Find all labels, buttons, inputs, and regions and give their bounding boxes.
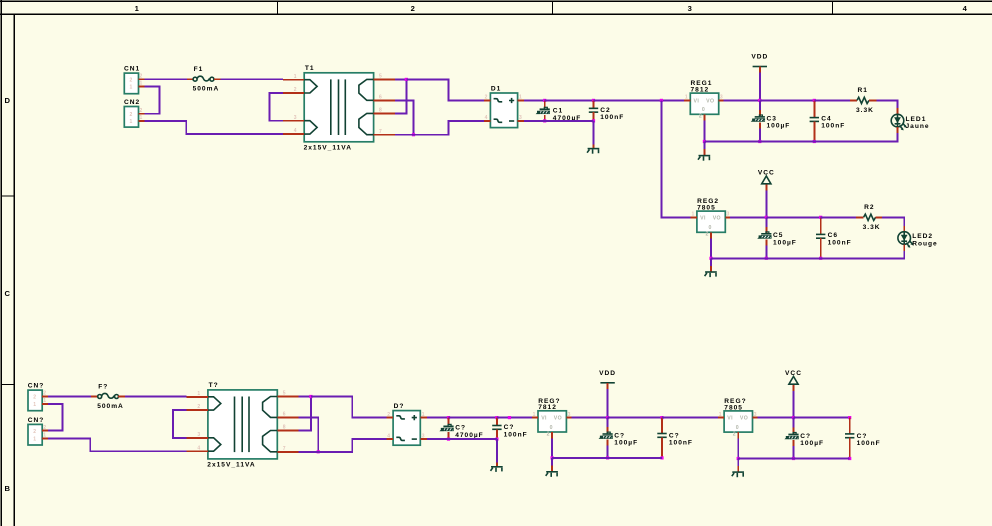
svg-text:VO: VO bbox=[740, 416, 748, 422]
svg-text:3: 3 bbox=[727, 212, 730, 218]
capacitor C2 100nF bbox=[593, 100, 595, 108]
capacitor C? 100nF bbox=[496, 418, 498, 426]
svg-text:8: 8 bbox=[379, 108, 382, 114]
wire D? - to C? bottom bbox=[427, 438, 449, 440]
wire ground rail C6 to C5 bbox=[766, 257, 820, 259]
svg-text:Jaune: Jaune bbox=[906, 123, 930, 130]
svg-text:2: 2 bbox=[43, 391, 46, 397]
ground at C2 bbox=[588, 148, 600, 150]
wire REG2 VO to VCC node bbox=[730, 216, 766, 218]
svg-text:1: 1 bbox=[135, 4, 140, 13]
node REG?7805 GND rail bbox=[737, 457, 740, 460]
svg-text:1: 1 bbox=[140, 115, 143, 121]
wire CN1-2 to F1 bbox=[145, 78, 188, 80]
svg-text:2: 2 bbox=[140, 108, 143, 114]
svg-text:5: 5 bbox=[379, 74, 382, 80]
capacitor C? 100nF at 7805 bbox=[849, 418, 851, 434]
wire F? to T? pin1 bbox=[125, 396, 187, 398]
svg-text:C?: C? bbox=[504, 424, 515, 431]
svg-text:1: 1 bbox=[685, 95, 688, 101]
svg-text:100nF: 100nF bbox=[828, 239, 852, 246]
wire C1 top to C2 top bbox=[545, 99, 594, 101]
wire T1 pin7 to node bbox=[395, 134, 414, 136]
ground at REG1 bbox=[699, 155, 711, 157]
svg-text:3: 3 bbox=[568, 412, 571, 418]
svg-text:VDD: VDD bbox=[751, 54, 768, 61]
svg-text:VI: VI bbox=[541, 416, 547, 422]
svg-text:6: 6 bbox=[379, 94, 382, 100]
wire VDD node to C?100n at 7812 bbox=[608, 417, 662, 419]
svg-text:3: 3 bbox=[720, 95, 723, 101]
wire C2 bottom to ground bbox=[593, 121, 595, 144]
ground at C?100n bbox=[491, 466, 503, 468]
svg-text:100µF: 100µF bbox=[773, 239, 797, 246]
wire REG?7805 VO to VCC node bbox=[757, 417, 793, 419]
svg-text:4: 4 bbox=[387, 433, 390, 439]
wire sec+ to D? ac1 bbox=[311, 397, 387, 418]
svg-text:500mA: 500mA bbox=[193, 86, 220, 93]
capacitor C3 100uF bbox=[759, 100, 761, 116]
node C?100n bottom at 7805 bbox=[848, 457, 851, 460]
node C1 bottom bbox=[543, 119, 546, 122]
svg-text:C?: C? bbox=[800, 433, 811, 440]
svg-text:C?: C? bbox=[614, 432, 625, 439]
svg-text:B: B bbox=[5, 484, 11, 493]
wire VCC node to C?100n at 7805 bbox=[794, 417, 850, 419]
node C2 top bbox=[592, 99, 595, 102]
wire REG1 gnd to ground bbox=[703, 142, 705, 150]
svg-text:0: 0 bbox=[709, 225, 712, 231]
svg-text:1: 1 bbox=[130, 85, 133, 91]
resistor R2 3.3K bbox=[856, 216, 864, 218]
ground at REG?7812 bbox=[546, 471, 558, 473]
wire D1 - to C1 bottom bbox=[524, 120, 545, 122]
wire C?4700 bottom to C?100n bottom bbox=[449, 438, 497, 440]
wire C?100n bottom to ground bbox=[496, 439, 498, 462]
wire sec- to D1 ac2 bbox=[414, 121, 484, 135]
svg-text:1: 1 bbox=[43, 433, 46, 439]
node VCC rail bbox=[765, 216, 768, 219]
wire CN2-1 to T1 pin4 bbox=[145, 121, 284, 134]
capacitor C? 100uF at 7812 bbox=[607, 418, 609, 428]
svg-text:CN2: CN2 bbox=[124, 99, 140, 106]
wire C6 to R2 bbox=[821, 216, 856, 218]
svg-text:2: 2 bbox=[547, 431, 550, 437]
svg-text:R1: R1 bbox=[858, 87, 868, 94]
node C4 bottom bbox=[813, 140, 816, 143]
svg-text:3.3K: 3.3K bbox=[856, 107, 874, 114]
wire VCC node to C6 bbox=[766, 216, 820, 218]
node VCC rail bottom bbox=[792, 416, 795, 419]
wire REG1 VO to VDD node bbox=[724, 99, 760, 101]
svg-text:VO: VO bbox=[554, 416, 562, 422]
node C?100n top bbox=[495, 416, 498, 419]
svg-text:100µF: 100µF bbox=[800, 440, 824, 447]
wire CN?1-2 to F? bbox=[48, 396, 91, 398]
svg-text:100nF: 100nF bbox=[600, 114, 624, 121]
capacitor C? 4700uF bbox=[448, 418, 450, 426]
svg-text:2: 2 bbox=[33, 429, 36, 435]
svg-text:2: 2 bbox=[130, 77, 133, 83]
svg-text:LED2: LED2 bbox=[912, 233, 933, 240]
svg-text:D1: D1 bbox=[491, 86, 501, 93]
wire gnd rail 7805 section bbox=[738, 458, 850, 460]
node C4 top bbox=[813, 99, 816, 102]
node REG?7812 GND rail bbox=[551, 456, 554, 459]
node REG1 GND rail bbox=[703, 140, 706, 143]
wire VDD down to rail bbox=[607, 389, 609, 418]
svg-text:7: 7 bbox=[283, 446, 286, 452]
wire T1 pin8 up to pin5 net bbox=[395, 79, 407, 113]
ground at REG2 bbox=[705, 271, 717, 273]
node C1 top bbox=[543, 99, 546, 102]
wire C1 bottom to C2 bottom bbox=[545, 120, 594, 122]
wire C2 top to REG1 VI bbox=[594, 99, 685, 101]
svg-text:1: 1 bbox=[33, 402, 36, 408]
svg-text:0: 0 bbox=[702, 107, 705, 113]
svg-text:R2: R2 bbox=[864, 204, 874, 211]
svg-text:3: 3 bbox=[519, 115, 522, 121]
svg-text:2x15V_11VA: 2x15V_11VA bbox=[207, 462, 255, 469]
wire LED2 to ground rail bbox=[821, 251, 905, 258]
svg-text:VDD: VDD bbox=[599, 370, 616, 377]
svg-text:C?: C? bbox=[455, 425, 466, 432]
svg-text:7: 7 bbox=[379, 129, 382, 135]
node C5 bottom bbox=[765, 257, 768, 260]
svg-text:C?: C? bbox=[669, 432, 680, 439]
svg-text:100µF: 100µF bbox=[767, 123, 791, 130]
node C?100n bottom at 7812 bbox=[660, 456, 663, 459]
node C?100u bottom at 7812 bbox=[606, 456, 609, 459]
svg-text:C1: C1 bbox=[553, 108, 563, 115]
svg-text:C3: C3 bbox=[767, 115, 777, 122]
wire REG?7812 gnd to ground bbox=[551, 458, 553, 466]
wire F1 to T1 pin1 bbox=[221, 78, 283, 80]
svg-text:D: D bbox=[5, 96, 11, 105]
svg-text:CN?: CN? bbox=[28, 383, 45, 390]
svg-text:4700µF: 4700µF bbox=[455, 432, 484, 439]
svg-text:5: 5 bbox=[283, 391, 286, 397]
capacitor C? 100uF at 7805 bbox=[793, 418, 795, 428]
svg-text:2: 2 bbox=[706, 232, 709, 238]
node REG2 GND rail bbox=[709, 257, 712, 260]
wire LED1 to ground rail bbox=[814, 133, 897, 142]
wire node down to REG2 VI bbox=[661, 100, 691, 217]
svg-text:2: 2 bbox=[294, 87, 297, 93]
svg-text:1: 1 bbox=[719, 412, 722, 418]
svg-text:VI: VI bbox=[700, 215, 706, 221]
svg-text:C6: C6 bbox=[828, 232, 838, 239]
svg-text:1: 1 bbox=[692, 212, 695, 218]
fuse F1 500mA bbox=[187, 78, 193, 80]
capacitor C6 100nF bbox=[820, 217, 822, 234]
svg-text:VI: VI bbox=[727, 416, 733, 422]
LED LED2 Rouge bbox=[903, 226, 905, 232]
svg-text:4: 4 bbox=[197, 445, 200, 451]
wire REG2 gnd to ground bbox=[710, 258, 712, 266]
svg-text:3: 3 bbox=[688, 4, 693, 13]
svg-text:LED1: LED1 bbox=[906, 116, 927, 123]
wire T? pin8 up to pin5 net bbox=[299, 397, 311, 431]
svg-text:1: 1 bbox=[197, 391, 200, 397]
svg-text:C2: C2 bbox=[600, 107, 610, 114]
wire REG?7805 gnd to ground bbox=[737, 459, 739, 467]
node T? pins 6-7 bbox=[317, 450, 320, 453]
wire T? pin7 to node bbox=[299, 451, 319, 453]
svg-text:CN?: CN? bbox=[28, 417, 45, 424]
wire ground rail C3 to REG1 bbox=[704, 141, 759, 143]
wire R2 to LED2 bbox=[882, 217, 904, 226]
node T1 pins 5-8 bbox=[405, 78, 408, 81]
wire CN1-1 to CN2-2 bbox=[145, 87, 160, 114]
capacitor C? 100nF at 7812 bbox=[661, 418, 663, 434]
wire T1 pin5 to node bbox=[395, 78, 407, 80]
wire ground rail C5 to REG2 bbox=[711, 257, 766, 259]
svg-text:500mA: 500mA bbox=[97, 403, 124, 410]
svg-text:1: 1 bbox=[294, 74, 297, 80]
node C3 bottom bbox=[758, 140, 761, 143]
svg-text:0: 0 bbox=[736, 425, 739, 431]
wire T1 pin6 down to pin7 net bbox=[395, 100, 414, 134]
node C6 bottom bbox=[819, 257, 822, 260]
ground at REG?7805 bbox=[732, 471, 744, 473]
svg-text:2: 2 bbox=[733, 432, 736, 438]
wire REG?7812 GND down bbox=[551, 438, 553, 458]
svg-text:1: 1 bbox=[422, 412, 425, 418]
svg-text:C: C bbox=[5, 289, 11, 298]
node C?4700 top bbox=[447, 416, 450, 419]
node C?4700 bottom bbox=[447, 438, 450, 441]
wire REG2 GND down bbox=[710, 239, 712, 259]
svg-text:2: 2 bbox=[33, 395, 36, 401]
svg-text:2x15V_11VA: 2x15V_11VA bbox=[304, 144, 352, 151]
svg-text:4: 4 bbox=[963, 4, 968, 13]
node C?100n top at 7805 bbox=[848, 416, 851, 419]
svg-text:1: 1 bbox=[33, 437, 36, 443]
node C?100n bottom bbox=[495, 438, 498, 441]
svg-text:T1: T1 bbox=[305, 65, 315, 72]
wire REG1 GND down bbox=[703, 121, 705, 142]
svg-text:2: 2 bbox=[485, 95, 488, 101]
svg-text:6: 6 bbox=[283, 412, 286, 418]
node C?100u bottom at 7805 bbox=[792, 457, 795, 460]
wire ground rail C4 to C3 bbox=[760, 141, 815, 143]
svg-text:3.3K: 3.3K bbox=[863, 224, 881, 231]
svg-text:100µF: 100µF bbox=[614, 440, 638, 447]
node C?100n top at 7812 bbox=[660, 416, 663, 419]
wire T? pin2 to pin3 jumper bbox=[173, 410, 187, 438]
svg-text:2: 2 bbox=[387, 412, 390, 418]
node T? pins 5-8 bbox=[309, 395, 312, 398]
svg-text:2: 2 bbox=[130, 112, 133, 118]
wire sec- to D? ac2 bbox=[318, 439, 386, 452]
svg-text:F?: F? bbox=[98, 383, 108, 390]
wire R1 to LED1 bbox=[876, 100, 897, 108]
node VDD rail bottom bbox=[606, 416, 609, 419]
svg-text:VI: VI bbox=[694, 98, 700, 104]
wire D1 + to C1 bbox=[524, 99, 545, 101]
svg-text:3: 3 bbox=[294, 115, 297, 121]
node C6 top bbox=[819, 216, 822, 219]
wire VCC down to rail bbox=[793, 391, 795, 418]
node C2 bottom bbox=[592, 119, 595, 122]
svg-text:C?: C? bbox=[857, 433, 868, 440]
wire C? to REG? 7812 VI bbox=[497, 417, 532, 419]
wire VCC down to rail bbox=[765, 191, 767, 218]
node after C?100n bbox=[508, 416, 511, 419]
svg-text:2: 2 bbox=[140, 73, 143, 79]
wire gnd rail 7812 section bbox=[552, 457, 662, 459]
wire CN?2-1 to T? pin4 bbox=[48, 438, 186, 451]
capacitor C1 4700uF bbox=[544, 100, 546, 108]
svg-text:3: 3 bbox=[422, 433, 425, 439]
svg-text:F1: F1 bbox=[194, 66, 204, 73]
svg-text:C5: C5 bbox=[773, 232, 783, 239]
svg-text:3: 3 bbox=[754, 412, 757, 418]
svg-text:100nF: 100nF bbox=[669, 440, 693, 447]
node VDD rail bbox=[758, 99, 761, 102]
node feed to REG2 bbox=[660, 99, 663, 102]
svg-text:2: 2 bbox=[699, 114, 702, 120]
svg-text:4: 4 bbox=[485, 115, 488, 121]
svg-text:1: 1 bbox=[130, 119, 133, 125]
wire T? pin5 to node bbox=[299, 396, 311, 398]
svg-text:8: 8 bbox=[283, 425, 286, 431]
svg-text:D?: D? bbox=[394, 403, 405, 410]
svg-text:2: 2 bbox=[411, 4, 416, 13]
wire VDD down to rail bbox=[759, 73, 761, 101]
LED LED1 Jaune bbox=[897, 108, 899, 114]
svg-text:100nF: 100nF bbox=[504, 431, 528, 438]
svg-text:C4: C4 bbox=[821, 115, 831, 122]
svg-text:CN1: CN1 bbox=[124, 66, 140, 73]
wire T? pin6 down to pin7 net bbox=[299, 417, 319, 451]
node T1 pins 6-7 bbox=[412, 133, 415, 136]
wire T1 pin2 to pin3 jumper bbox=[269, 93, 283, 121]
wire REG?7805 GND down bbox=[737, 439, 739, 459]
capacitor C5 100uF bbox=[765, 217, 767, 227]
capacitor C4 100nF bbox=[813, 100, 815, 117]
svg-text:3: 3 bbox=[197, 432, 200, 438]
svg-text:100nF: 100nF bbox=[857, 440, 881, 447]
wire CN?1-1 to CN?2-2 bbox=[48, 404, 62, 431]
fuse F? 500mA bbox=[91, 396, 98, 398]
svg-text:VO: VO bbox=[706, 98, 714, 104]
resistor R1 3.3K bbox=[850, 99, 857, 101]
svg-text:1: 1 bbox=[519, 95, 522, 101]
svg-text:0: 0 bbox=[550, 425, 553, 431]
svg-text:2: 2 bbox=[43, 425, 46, 431]
svg-text:2: 2 bbox=[197, 404, 200, 410]
wire C?100n to REG? 7805 VI bbox=[662, 417, 718, 419]
svg-text:VO: VO bbox=[713, 215, 721, 221]
svg-text:T?: T? bbox=[209, 382, 219, 389]
wire C4 to R1 bbox=[814, 99, 850, 101]
wire VDD node to C4 bbox=[760, 99, 815, 101]
svg-text:Rouge: Rouge bbox=[912, 241, 938, 248]
svg-text:1: 1 bbox=[140, 81, 143, 87]
svg-text:1: 1 bbox=[533, 412, 536, 418]
wire D? + to C? 4700uF bbox=[427, 417, 449, 419]
wire REG?7812 VO to VDD node bbox=[571, 417, 607, 419]
wire to C?100n top bbox=[449, 417, 497, 419]
svg-text:1: 1 bbox=[43, 398, 46, 404]
svg-text:100nF: 100nF bbox=[821, 123, 845, 130]
wire sec+ to D1 ac1 bbox=[406, 79, 484, 100]
svg-text:4: 4 bbox=[294, 128, 297, 134]
